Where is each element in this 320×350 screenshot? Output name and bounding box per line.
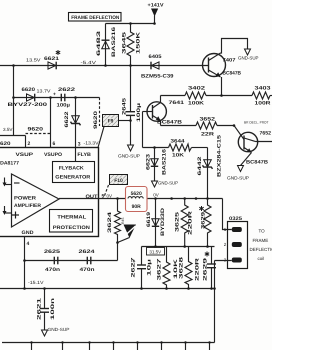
wire row C (3.5V) (0, 135, 26, 137)
resistor 3402 100K (185, 92, 206, 99)
svg-text:7407: 7407 (223, 58, 236, 64)
svg-text:DEFLECTION: DEFLECTION (250, 247, 273, 252)
svg-text:BR DECL. PROT: BR DECL. PROT (244, 121, 269, 125)
transistor 7407 BC847B (203, 54, 226, 77)
wire row A (-5.4V rail) (0, 65, 208, 67)
wire emitter down (221, 77, 223, 96)
svg-text:6483: 6483 (96, 31, 102, 56)
ground GND-SUP (152, 181, 158, 187)
svg-text:3: 3 (78, 141, 81, 147)
svg-text:150K: 150K (136, 31, 142, 54)
svg-text:6622: 6622 (64, 111, 70, 127)
svg-text:31,5V: 31,5V (149, 249, 161, 254)
svg-text:PROTECTION: PROTECTION (53, 225, 90, 231)
wire collector to GND-SUP (221, 39, 248, 54)
svg-text:GND-SUP: GND-SUP (227, 176, 249, 181)
wire pin6 (50, 98, 52, 148)
ground GND-SUP (42, 330, 48, 336)
resistor 3628 220R (185, 247, 192, 289)
wire row I (-15.1V rail) (0, 288, 215, 290)
svg-text:3645: 3645 (122, 32, 128, 54)
capacitor 2629 (211, 247, 213, 264)
capacitor 2621 100n (44, 289, 46, 309)
diode 6620 BYV27-200 (27, 94, 35, 101)
wire 9620 dashed jumper (26, 133, 51, 135)
resistor 3652 22R (196, 122, 217, 129)
transistor 7641 BC847B (147, 102, 166, 121)
capacitor 2622 100u (60, 94, 62, 102)
svg-text:GND-SUP: GND-SUP (48, 327, 70, 332)
svg-text:2624: 2624 (79, 249, 95, 255)
capacitor 2625 470n (53, 257, 55, 265)
svg-text:TO: TO (259, 229, 266, 234)
svg-text:+141V: +141V (148, 3, 165, 9)
svg-text:OUT: OUT (86, 194, 98, 200)
svg-text:FLYBACK: FLYBACK (59, 165, 84, 171)
svg-text:100µ: 100µ (57, 103, 71, 109)
svg-text:90R: 90R (132, 204, 142, 210)
svg-text:3627: 3627 (157, 258, 163, 280)
svg-text:3652: 3652 (200, 117, 216, 123)
resistor 3627 10K (163, 247, 170, 289)
svg-text:R45: R45 (121, 218, 125, 224)
svg-text:13.5V: 13.5V (26, 58, 41, 63)
svg-text:0V: 0V (107, 194, 113, 199)
svg-text:BAS216: BAS216 (162, 149, 168, 175)
diode 6623 BAS216 (154, 148, 156, 182)
svg-text:100µ: 100µ (136, 103, 142, 122)
svg-text:100n: 100n (50, 298, 56, 320)
svg-text:10K: 10K (172, 153, 184, 159)
fuse F9 (119, 120, 131, 122)
FRAME DEFLECTION label box (69, 13, 122, 22)
zener 6442 BZX284-C15 (207, 148, 209, 199)
svg-text:GENERATOR: GENERATOR (55, 174, 90, 180)
svg-text:BC847B: BC847B (223, 71, 242, 77)
svg-text:5620: 5620 (131, 191, 142, 197)
svg-text:VSUPO: VSUPO (44, 152, 62, 158)
svg-text:6621: 6621 (44, 56, 59, 62)
svg-text:100R: 100R (255, 101, 272, 107)
svg-text:VSUP: VSUP (16, 152, 34, 158)
fuse F10 (110, 175, 128, 185)
ground GND-SUP (128, 145, 134, 151)
svg-text:4: 4 (27, 241, 30, 247)
resistor 3645 150K (127, 24, 134, 66)
resistor 3624 (115, 199, 121, 261)
svg-text:BAS216: BAS216 (111, 27, 117, 57)
wire to connector pin 1 (223, 199, 232, 230)
svg-text:BC847B: BC847B (246, 160, 268, 166)
svg-text:3.5V: 3.5V (3, 127, 13, 132)
svg-text:6619: 6619 (146, 212, 152, 227)
flyback generator block (53, 162, 95, 183)
svg-text:7641: 7641 (169, 100, 185, 106)
wire row B (13.7V) (14, 97, 100, 99)
svg-text:AMPLIFIER: AMPLIFIER (14, 203, 41, 209)
wire pin4 (24, 237, 26, 289)
diode 6483 BAS216 (105, 24, 107, 66)
svg-text:FRAME DEFLECTION: FRAME DEFLECTION (71, 15, 119, 21)
svg-text:3403: 3403 (255, 86, 271, 92)
svg-text:GND-SUP: GND-SUP (118, 154, 140, 159)
wire 9620 dashed link (99, 98, 101, 127)
svg-text:6620: 6620 (22, 87, 36, 93)
svg-text:BZM55-C39: BZM55-C39 (141, 74, 174, 80)
zener 6622 (75, 98, 77, 162)
wire pin3 drop (215, 260, 232, 262)
wire caps row (25, 260, 118, 262)
svg-text:2629: 2629 (203, 258, 209, 281)
resistor 3625 220R (183, 197, 186, 200)
op-amp U1 power amplifier triangle (12, 174, 60, 227)
star mark (56, 50, 60, 55)
svg-text:GND-SUP: GND-SUP (238, 56, 259, 61)
svg-text:9620: 9620 (28, 127, 44, 133)
svg-text:3402: 3402 (188, 86, 205, 92)
svg-text:F9: F9 (108, 119, 114, 125)
svg-text:THERMAL: THERMAL (57, 215, 86, 221)
svg-text:2625: 2625 (44, 249, 60, 255)
svg-text:GND-SUP: GND-SUP (158, 181, 178, 186)
svg-text:POWER: POWER (14, 195, 36, 201)
wire emitter to GND-SUP (241, 153, 252, 166)
diode 6405 BZM55-C39 (150, 62, 152, 70)
svg-text:GND: GND (22, 230, 34, 236)
svg-text:3625: 3625 (175, 212, 181, 232)
svg-text:10µ: 10µ (147, 259, 153, 276)
svg-text:-5.4V: -5.4V (81, 60, 97, 65)
svg-text:3644: 3644 (171, 139, 185, 145)
capacitor 2624 470n (86, 257, 88, 265)
svg-text:620: 620 (0, 141, 11, 147)
svg-text:3624: 3624 (107, 212, 113, 233)
svg-text:FRAME: FRAME (253, 238, 269, 243)
transistor 7652 BC847B (238, 132, 257, 151)
svg-text:100K: 100K (188, 101, 205, 107)
input stubs (4, 178, 6, 184)
svg-text:3628: 3628 (179, 257, 185, 279)
svg-text:470n: 470n (80, 267, 95, 273)
svg-text:220R: 220R (195, 257, 201, 281)
svg-text:6: 6 (53, 141, 56, 147)
svg-text:470n: 470n (45, 267, 60, 273)
svg-text:2645: 2645 (122, 98, 128, 115)
svg-text:coil: coil (258, 256, 265, 261)
svg-text:9620: 9620 (93, 111, 99, 129)
capacitor 2627 10u (141, 247, 143, 265)
svg-text:2627: 2627 (131, 257, 137, 277)
IC U1 TDA8177 box (0, 148, 99, 237)
svg-text:2621: 2621 (37, 298, 43, 320)
svg-text:F10: F10 (114, 178, 123, 184)
svg-text:6442: 6442 (197, 156, 203, 175)
resistor 5620 90R (highlighted) (126, 187, 148, 212)
wire +141V drop (154, 16, 156, 24)
diode 6619 BYD33D (154, 197, 157, 200)
svg-text:6623: 6623 (146, 154, 152, 170)
svg-text:0V: 0V (153, 193, 159, 198)
svg-text:2: 2 (28, 141, 31, 147)
svg-text:13.7V: 13.7V (37, 89, 51, 94)
svg-text:BZX284-C15: BZX284-C15 (217, 135, 223, 177)
svg-text:FLYB: FLYB (77, 152, 91, 158)
svg-text:-13.3V: -13.3V (84, 140, 99, 145)
wire top rail (106, 23, 155, 25)
thyristor crowbar symbol (124, 225, 137, 239)
wire row G (31.5V node) (142, 246, 215, 248)
svg-text:+: + (53, 92, 56, 98)
svg-text:22R: 22R (201, 132, 215, 138)
thermal protection block (50, 210, 93, 233)
wire left bus (13, 66, 15, 136)
wire row D (161, 95, 186, 97)
svg-text:BYD33D: BYD33D (160, 207, 166, 236)
svg-text:0325: 0325 (229, 216, 242, 222)
svg-text:6405: 6405 (149, 54, 162, 60)
resistor 3629 (206, 197, 209, 200)
wire row F (base of 7641) (142, 112, 144, 148)
wire bottom rail (2, 342, 215, 344)
wire OUT (0V) (59, 198, 127, 200)
capacitor 2645 100u (130, 66, 132, 112)
svg-text:7652: 7652 (260, 131, 272, 137)
svg-text:BC847B: BC847B (157, 120, 182, 126)
node 31,5V (147, 248, 165, 256)
svg-text:220R: 220R (188, 210, 194, 235)
resistor 3644 10K (169, 144, 192, 151)
svg-text:-15.1V: -15.1V (28, 280, 44, 285)
svg-text:2622: 2622 (58, 87, 75, 93)
diode 6621 (48, 62, 56, 69)
svg-text:3629: 3629 (201, 212, 207, 229)
connector 0325 (228, 222, 248, 269)
resistor 3403 100R (252, 92, 270, 99)
svg-text:TDA8177: TDA8177 (0, 161, 19, 167)
wire row E (22R row) (161, 125, 197, 127)
